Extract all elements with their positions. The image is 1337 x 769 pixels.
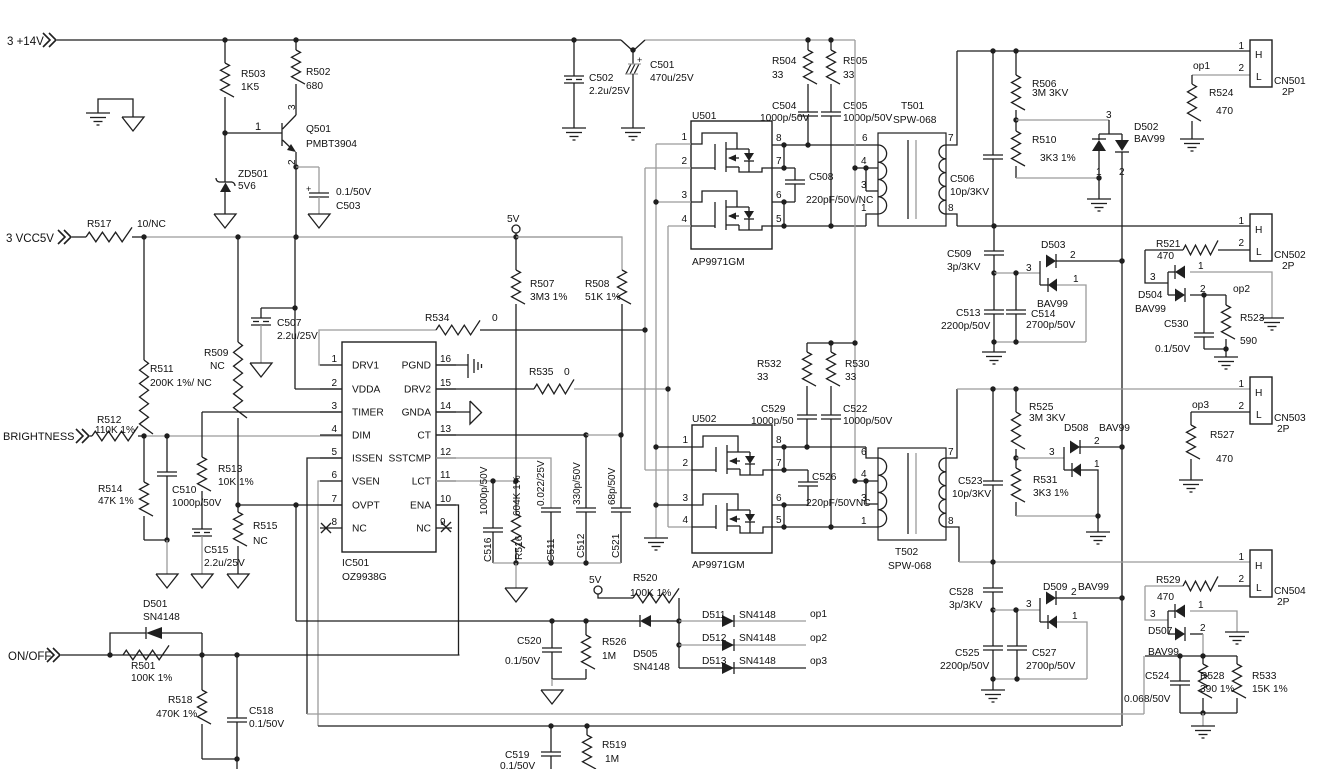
svg-text:R533: R533: [1252, 671, 1277, 682]
wire OVPT net: [238, 504, 342, 506]
IC501 pin 10 ENA: [436, 504, 456, 506]
resistor R532: [806, 343, 808, 352]
svg-text:op2: op2: [1233, 284, 1250, 295]
svg-text:0.1/50V: 0.1/50V: [336, 187, 371, 198]
svg-text:R519: R519: [602, 740, 627, 751]
wire ISSEN feedback row: [307, 713, 1144, 715]
IC501 pin 7 OVPT: [320, 504, 342, 506]
wire +14V rail: [57, 39, 621, 41]
svg-text:R510: R510: [1032, 135, 1057, 146]
svg-text:R509: R509: [204, 348, 229, 359]
svg-text:C501: C501: [650, 60, 675, 71]
svg-text:3: 3: [861, 180, 867, 191]
capacitor C522: [821, 414, 841, 416]
resistor R505: [830, 40, 832, 50]
transistor U502 FET2: [692, 494, 738, 510]
svg-text:U502: U502: [692, 414, 717, 425]
wire VSEN rail right: [1121, 152, 1123, 726]
svg-text:ENA: ENA: [410, 501, 431, 512]
svg-text:C529: C529: [761, 404, 786, 415]
svg-text:U501: U501: [692, 111, 717, 122]
ground under C501: [621, 127, 645, 129]
svg-text:7: 7: [948, 447, 954, 458]
svg-text:12: 12: [440, 447, 452, 458]
transformer T501: [878, 133, 946, 226]
svg-text:D502: D502: [1134, 122, 1159, 133]
transistor U502 box: [692, 425, 772, 553]
wire U501 drain2 row: [772, 225, 866, 227]
IC501 pin 3 TIMER: [320, 411, 342, 413]
svg-text:D512: D512: [702, 633, 727, 644]
resistor R527: [1190, 412, 1192, 425]
diode D509: [1039, 598, 1041, 622]
svg-text:10: 10: [440, 494, 452, 505]
connector CN502: [1250, 214, 1272, 261]
svg-text:LCT: LCT: [412, 477, 431, 488]
svg-text:2: 2: [1094, 436, 1100, 447]
svg-text:op3: op3: [810, 656, 827, 667]
capacitor C528: [992, 562, 994, 588]
IC501 pin 9 NC: [436, 527, 452, 529]
wire lamp row4 H: [959, 561, 1250, 563]
diode D501: [110, 633, 146, 655]
svg-text:R513: R513: [218, 464, 243, 475]
svg-text:VDDA: VDDA: [352, 385, 381, 396]
ground tie top-left: [98, 99, 133, 117]
svg-text:3p/3KV: 3p/3KV: [947, 262, 981, 273]
diode D511: [679, 620, 806, 622]
resistor R516: [515, 481, 517, 514]
svg-text:Q501: Q501: [306, 124, 331, 135]
svg-text:15K 1%: 15K 1%: [1252, 684, 1288, 695]
resistor R518: [201, 655, 203, 690]
resistor R513: [201, 412, 203, 457]
svg-text:C516: C516: [483, 537, 494, 562]
svg-text:C527: C527: [1032, 648, 1057, 659]
wire ISSEN net: [307, 458, 342, 714]
svg-text:2: 2: [1238, 401, 1244, 412]
wire U501 pins 6-5 tie: [772, 201, 795, 203]
svg-text:1: 1: [255, 121, 261, 133]
wire ENA net: [436, 505, 459, 655]
svg-text:NC: NC: [416, 524, 431, 535]
svg-text:3: 3: [682, 493, 688, 504]
capacitor C511: [541, 507, 561, 509]
ground under C515: [191, 574, 213, 588]
capacitor C502: [573, 40, 575, 76]
ground D507 pin1: [1225, 631, 1249, 633]
svg-text:1000p/50V: 1000p/50V: [843, 416, 892, 427]
wire CT net: [436, 434, 586, 436]
svg-text:D503: D503: [1041, 240, 1066, 251]
svg-text:1000p/50V: 1000p/50V: [172, 498, 221, 509]
T502 pin 6 wire: [866, 447, 878, 458]
wire DRV2 rail: [668, 225, 691, 227]
ground D504 pin1: [1260, 317, 1284, 319]
capacitor C501: [621, 40, 645, 51]
wire R510 bottom row: [1016, 177, 1099, 179]
wire U502 drain1 row: [772, 446, 866, 448]
svg-text:4: 4: [331, 424, 337, 435]
svg-text:3: 3: [1049, 447, 1055, 458]
wire U502 pins 6-5 tie: [772, 504, 808, 506]
svg-text:C515: C515: [204, 545, 229, 556]
ground under R528: [1191, 725, 1215, 727]
svg-text:C510: C510: [172, 485, 197, 496]
IC501 pin 5 ISSEN: [320, 457, 342, 459]
svg-text:CN504: CN504: [1274, 586, 1306, 597]
capacitor C515: [192, 528, 212, 530]
svg-text:2200p/50V: 2200p/50V: [941, 321, 990, 332]
svg-text:OVPT: OVPT: [352, 501, 380, 512]
svg-text:3: 3: [681, 190, 687, 201]
ground under cap bus: [505, 588, 527, 602]
T502 pin 8 wire: [946, 527, 959, 562]
svg-text:BAV99: BAV99: [1099, 423, 1130, 434]
svg-text:604K 1%: 604K 1%: [512, 475, 523, 516]
svg-text:590: 590: [1240, 336, 1257, 347]
svg-text:BRIGHTNESS: BRIGHTNESS: [3, 431, 75, 443]
svg-text:4: 4: [681, 214, 687, 225]
svg-text:ON/OFF: ON/OFF: [8, 651, 51, 663]
svg-text:2200p/50V: 2200p/50V: [940, 661, 989, 672]
svg-text:3: 3: [1026, 263, 1032, 274]
diode D513: [679, 667, 806, 669]
resistor R504: [807, 40, 809, 50]
svg-text:C520: C520: [517, 636, 542, 647]
svg-text:3: 3: [1106, 110, 1112, 121]
resistor R531: [1015, 458, 1017, 468]
svg-text:op1: op1: [810, 609, 827, 620]
resistor R510: [1015, 120, 1017, 131]
capacitor C521: [620, 435, 622, 508]
resistor R514: [143, 436, 145, 482]
wire U502 drain2 row: [772, 526, 878, 528]
resistor R526: [585, 621, 587, 635]
svg-text:GNDA: GNDA: [402, 408, 432, 419]
svg-text:T502: T502: [895, 547, 919, 558]
wire VSEN net: [318, 481, 342, 726]
capacitor C508: [772, 167, 795, 169]
ground under D502: [1098, 178, 1100, 199]
IC501 pin 15 DRV2: [436, 388, 456, 390]
connector CN504: [1250, 550, 1272, 597]
svg-text:R525: R525: [1029, 402, 1054, 413]
wire DIM net: [144, 435, 342, 437]
svg-text:H: H: [1255, 388, 1262, 399]
wire SSTCMP net: [436, 458, 551, 508]
svg-text:8: 8: [948, 203, 954, 214]
transformer T502: [878, 448, 946, 540]
op-amp U1 IC501 box: [342, 342, 436, 552]
svg-text:DIM: DIM: [352, 431, 371, 442]
svg-text:R503: R503: [241, 69, 266, 80]
svg-text:C513: C513: [956, 308, 981, 319]
resistor R509: [237, 237, 239, 342]
resistor R517: [72, 236, 86, 238]
svg-text:NC: NC: [253, 536, 268, 547]
diode D504: [1167, 272, 1169, 295]
svg-text:3: 3: [861, 493, 867, 504]
svg-text:1: 1: [1096, 167, 1102, 178]
svg-text:680: 680: [306, 81, 323, 92]
svg-text:7: 7: [948, 133, 954, 144]
node base Q501: [222, 130, 227, 135]
svg-text:1: 1: [1198, 600, 1204, 611]
ground under C503: [308, 214, 330, 228]
resistor R511: [143, 237, 145, 360]
svg-text:6: 6: [776, 493, 782, 504]
capacitor C514: [1015, 273, 1017, 310]
IC501 pin 16 PGND: [436, 364, 456, 366]
svg-text:R508: R508: [585, 279, 610, 290]
svg-text:1: 1: [1198, 261, 1204, 272]
svg-text:7: 7: [331, 494, 337, 505]
resistor R512: [90, 435, 92, 437]
svg-text:C511: C511: [546, 538, 557, 562]
wire VSEN feedback row: [318, 725, 1121, 727]
svg-text:op3: op3: [1192, 400, 1209, 411]
svg-text:R507: R507: [530, 279, 555, 290]
ground GNDA symbol: [436, 411, 470, 413]
svg-text:R528: R528: [1200, 671, 1225, 682]
svg-text:0.068/50V: 0.068/50V: [1124, 694, 1171, 705]
svg-text:14: 14: [440, 401, 452, 412]
resistor R529: [1145, 585, 1183, 587]
svg-text:CN502: CN502: [1274, 250, 1306, 261]
svg-text:SN4148: SN4148: [739, 633, 776, 644]
svg-text:5V: 5V: [589, 575, 602, 586]
svg-text:R502: R502: [306, 67, 331, 78]
svg-text:R534: R534: [425, 313, 450, 324]
svg-text:C514: C514: [1031, 309, 1056, 320]
svg-text:2: 2: [1070, 250, 1076, 261]
svg-text:C507: C507: [277, 318, 302, 329]
T502 pin 7 wire: [946, 389, 957, 458]
resistor R506: [1015, 51, 1017, 75]
transistor Q501: [281, 123, 283, 146]
svg-text:C528: C528: [949, 587, 974, 598]
svg-text:5: 5: [776, 515, 782, 526]
svg-text:1M: 1M: [602, 651, 616, 662]
svg-text:4: 4: [861, 469, 867, 480]
ground under C502: [562, 127, 586, 129]
capacitor C504: [798, 111, 818, 113]
svg-text:2: 2: [681, 156, 687, 167]
svg-text:0.022/25V: 0.022/25V: [536, 460, 547, 506]
svg-text:15: 15: [440, 378, 452, 389]
wire lamp row3 H: [957, 388, 1250, 390]
svg-text:1: 1: [1238, 41, 1244, 52]
svg-text:1: 1: [1238, 216, 1244, 227]
svg-text:1M: 1M: [605, 754, 619, 765]
svg-text:51K 1%: 51K 1%: [585, 292, 621, 303]
svg-text:R501: R501: [131, 661, 156, 672]
svg-text:5: 5: [776, 214, 782, 225]
capacitor C510: [166, 436, 168, 472]
capacitor C503: [296, 166, 319, 168]
svg-text:1: 1: [861, 203, 867, 214]
svg-text:BAV99: BAV99: [1134, 134, 1165, 145]
ground under R523: [1225, 349, 1227, 357]
svg-text:L: L: [1256, 583, 1262, 594]
IC501 pin 1 DRV1: [320, 364, 342, 366]
svg-text:2P: 2P: [1277, 424, 1290, 435]
svg-text:2P: 2P: [1282, 87, 1295, 98]
T501 pin 1 wire: [866, 214, 878, 226]
IC501 pin 13 CT: [436, 434, 456, 436]
ground under C520: [541, 690, 563, 704]
svg-text:IC501: IC501: [342, 558, 370, 569]
resistor R515: [237, 505, 239, 512]
svg-text:33: 33: [845, 372, 857, 383]
resistor R533: [1236, 656, 1238, 664]
svg-text:8: 8: [948, 516, 954, 527]
svg-text:R531: R531: [1033, 475, 1058, 486]
svg-text:+: +: [637, 55, 642, 65]
svg-text:6: 6: [776, 190, 782, 201]
svg-text:13: 13: [440, 424, 452, 435]
svg-text:R521: R521: [1156, 239, 1181, 250]
svg-text:2: 2: [1238, 63, 1244, 74]
wire sense bus bottom: [1180, 712, 1237, 714]
wire D509 pin3 net: [993, 609, 1040, 611]
wire VCC5V rail: [144, 236, 622, 238]
transistor U502 FET1: [692, 436, 738, 452]
svg-text:T501: T501: [901, 101, 925, 112]
svg-text:470: 470: [1157, 251, 1174, 262]
svg-text:2: 2: [331, 378, 337, 389]
ground under C510: [156, 574, 178, 588]
svg-text:R520: R520: [633, 573, 658, 584]
svg-text:1: 1: [861, 516, 867, 527]
transistor U501 FET2: [691, 191, 737, 207]
zener ZD501: [224, 133, 226, 182]
svg-text:C519: C519: [505, 750, 530, 761]
svg-text:0.1/50V: 0.1/50V: [1155, 344, 1190, 355]
transistor U501 FET1: [691, 133, 737, 149]
svg-text:D504: D504: [1138, 290, 1163, 301]
svg-text:0.1/50V: 0.1/50V: [500, 761, 535, 769]
svg-text:R526: R526: [602, 637, 627, 648]
svg-text:8: 8: [331, 517, 337, 528]
svg-text:PGND: PGND: [402, 361, 431, 372]
capacitor C505: [821, 111, 841, 113]
resistor R534: [436, 320, 480, 334]
ground row2 divider: [982, 351, 1006, 353]
wire U501 sources rail: [656, 143, 691, 145]
svg-text:3: 3: [1150, 272, 1156, 283]
ground under ZD501: [214, 214, 236, 228]
svg-text:1000p/50: 1000p/50: [751, 416, 794, 427]
svg-text:3M 3KV: 3M 3KV: [1029, 413, 1065, 424]
svg-text:10p/3KV: 10p/3KV: [950, 187, 989, 198]
resistor R521: [1145, 249, 1183, 251]
svg-text:ISSEN: ISSEN: [352, 454, 383, 465]
svg-text:C504: C504: [772, 101, 797, 112]
svg-text:2.2u/25V: 2.2u/25V: [204, 558, 245, 569]
svg-text:CN503: CN503: [1274, 413, 1306, 424]
svg-text:1K5: 1K5: [241, 82, 259, 93]
svg-text:L: L: [1256, 247, 1262, 258]
svg-text:3 VCC5V: 3 VCC5V: [6, 233, 54, 245]
IC501 pin 2 VDDA: [320, 388, 342, 390]
wire D507 pin3 net: [1145, 586, 1168, 620]
svg-text:SN4148: SN4148: [633, 662, 670, 673]
svg-text:R514: R514: [98, 484, 123, 495]
svg-text:8: 8: [776, 435, 782, 446]
svg-text:D507: D507: [1148, 626, 1173, 637]
svg-text:3M 3KV: 3M 3KV: [1032, 88, 1068, 99]
svg-text:3K3 1%: 3K3 1%: [1033, 488, 1069, 499]
svg-text:op2: op2: [810, 633, 827, 644]
svg-text:D508: D508: [1064, 423, 1089, 434]
svg-text:C512: C512: [576, 533, 587, 558]
diode D508: [1063, 447, 1065, 470]
capacitor C524: [1179, 656, 1181, 681]
IC501 pin 14 GNDA: [436, 411, 456, 413]
svg-text:3K3 1%: 3K3 1%: [1040, 153, 1076, 164]
svg-text:DRV2: DRV2: [404, 385, 431, 396]
diode D507: [1167, 611, 1169, 634]
svg-text:200K 1%/ NC: 200K 1%/ NC: [150, 378, 212, 389]
svg-text:3M3 1%: 3M3 1%: [530, 292, 567, 303]
svg-text:470: 470: [1216, 454, 1233, 465]
svg-text:3 +14V: 3 +14V: [7, 36, 44, 48]
svg-text:1: 1: [1073, 274, 1079, 285]
svg-text:D505: D505: [633, 649, 658, 660]
svg-text:3: 3: [287, 104, 298, 110]
svg-text:2700p/50V: 2700p/50V: [1026, 320, 1075, 331]
svg-text:SPW-068: SPW-068: [888, 561, 932, 572]
resistor R528: [1202, 656, 1204, 664]
svg-text:3: 3: [1026, 599, 1032, 610]
resistor R502: [295, 40, 297, 50]
resistor R507: [515, 237, 517, 270]
svg-text:R529: R529: [1156, 575, 1181, 586]
wire DRV1 to R534: [319, 330, 436, 365]
svg-text:C523: C523: [958, 476, 983, 487]
svg-text:6: 6: [861, 447, 867, 458]
svg-text:R504: R504: [772, 56, 797, 67]
IC501 pin 9 NC cross: [441, 522, 451, 532]
capacitor C519: [550, 726, 552, 752]
IC501 pin 8 NC cross: [321, 523, 331, 533]
resistor R501: [123, 645, 169, 659]
svg-text:DRV1: DRV1: [352, 361, 379, 372]
svg-text:R517: R517: [87, 219, 112, 230]
wire lamp row2 H: [957, 225, 1250, 227]
resistor R519: [586, 726, 588, 735]
resistor R508: [516, 237, 622, 270]
wire cap bus: [493, 562, 621, 564]
wire sense bus top: [1145, 655, 1237, 657]
IC501 pin 12 SSTCMP: [436, 457, 456, 459]
svg-text:AP9971GM: AP9971GM: [692, 560, 745, 571]
ground under R515: [227, 574, 249, 588]
svg-text:7: 7: [776, 458, 782, 469]
svg-text:330p/50V: 330p/50V: [572, 462, 583, 505]
ground PGND symbol: [436, 364, 468, 366]
svg-text:R535: R535: [529, 367, 554, 378]
svg-text:7: 7: [776, 156, 782, 167]
svg-text:R515: R515: [253, 521, 278, 532]
diode D512: [679, 644, 806, 646]
svg-text:L: L: [1256, 72, 1262, 83]
svg-text:68p/50V: 68p/50V: [607, 467, 618, 505]
svg-text:1: 1: [681, 132, 687, 143]
svg-text:R518: R518: [168, 695, 193, 706]
